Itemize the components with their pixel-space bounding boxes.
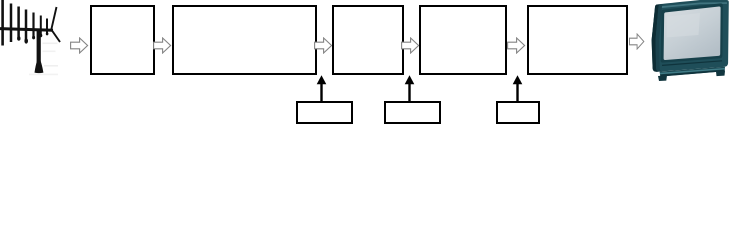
antenna V dipole [51,7,60,42]
box 1 [90,5,155,75]
antenna ground shading [43,43,58,45]
hollow arrow 2 [153,37,172,54]
TV top bezel highlight [659,2,727,8]
antenna element 2 [10,4,13,43]
antenna mast [37,29,41,63]
TV screen [664,6,721,60]
TV pedestal highlight [660,68,725,74]
antenna element 6 blob [40,34,43,37]
antenna element 3 [17,7,20,39]
TV bottom bezel grille [662,60,722,66]
antenna mast base [35,61,44,73]
TV foot left [658,75,667,81]
box 3 [332,5,404,75]
TV pedestal bottom dark [660,70,725,77]
small box 2 [384,101,441,124]
small box 3 [496,101,540,124]
hollow arrow 4 [401,37,420,54]
TV foot right [716,71,725,76]
antenna element 3 blob [17,36,20,40]
hollow arrow 3 [314,37,333,54]
antenna element 6 [40,16,42,37]
hollow arrow 5 [507,37,526,54]
up arrow 2 [403,75,416,103]
antenna element 4 blob [24,38,28,43]
antenna boom [0,29,53,31]
TV body front [652,0,729,72]
box 2 [172,5,317,75]
TV screen bezel [661,3,723,62]
up arrow 3 [511,75,524,103]
antenna element 5 [32,13,34,39]
antenna element 7 blob [46,32,49,35]
antenna element 5 blob [32,36,35,40]
antenna element 4 [25,10,28,42]
TV pedestal [660,67,726,77]
antenna element 7 [46,19,48,35]
hollow arrow 1 [70,37,89,54]
box 5 [527,5,628,75]
TV left side ridge dark [652,4,661,72]
TV screen glare [667,13,701,38]
small box 1 [296,101,353,124]
hollow arrow 6 [629,33,645,50]
TV icon [648,0,730,85]
antenna icon [0,0,66,80]
box 4 [419,5,507,75]
up arrow 1 [315,75,328,103]
antenna element 1 [1,0,4,46]
TV left side ridge 2 [656,4,665,72]
